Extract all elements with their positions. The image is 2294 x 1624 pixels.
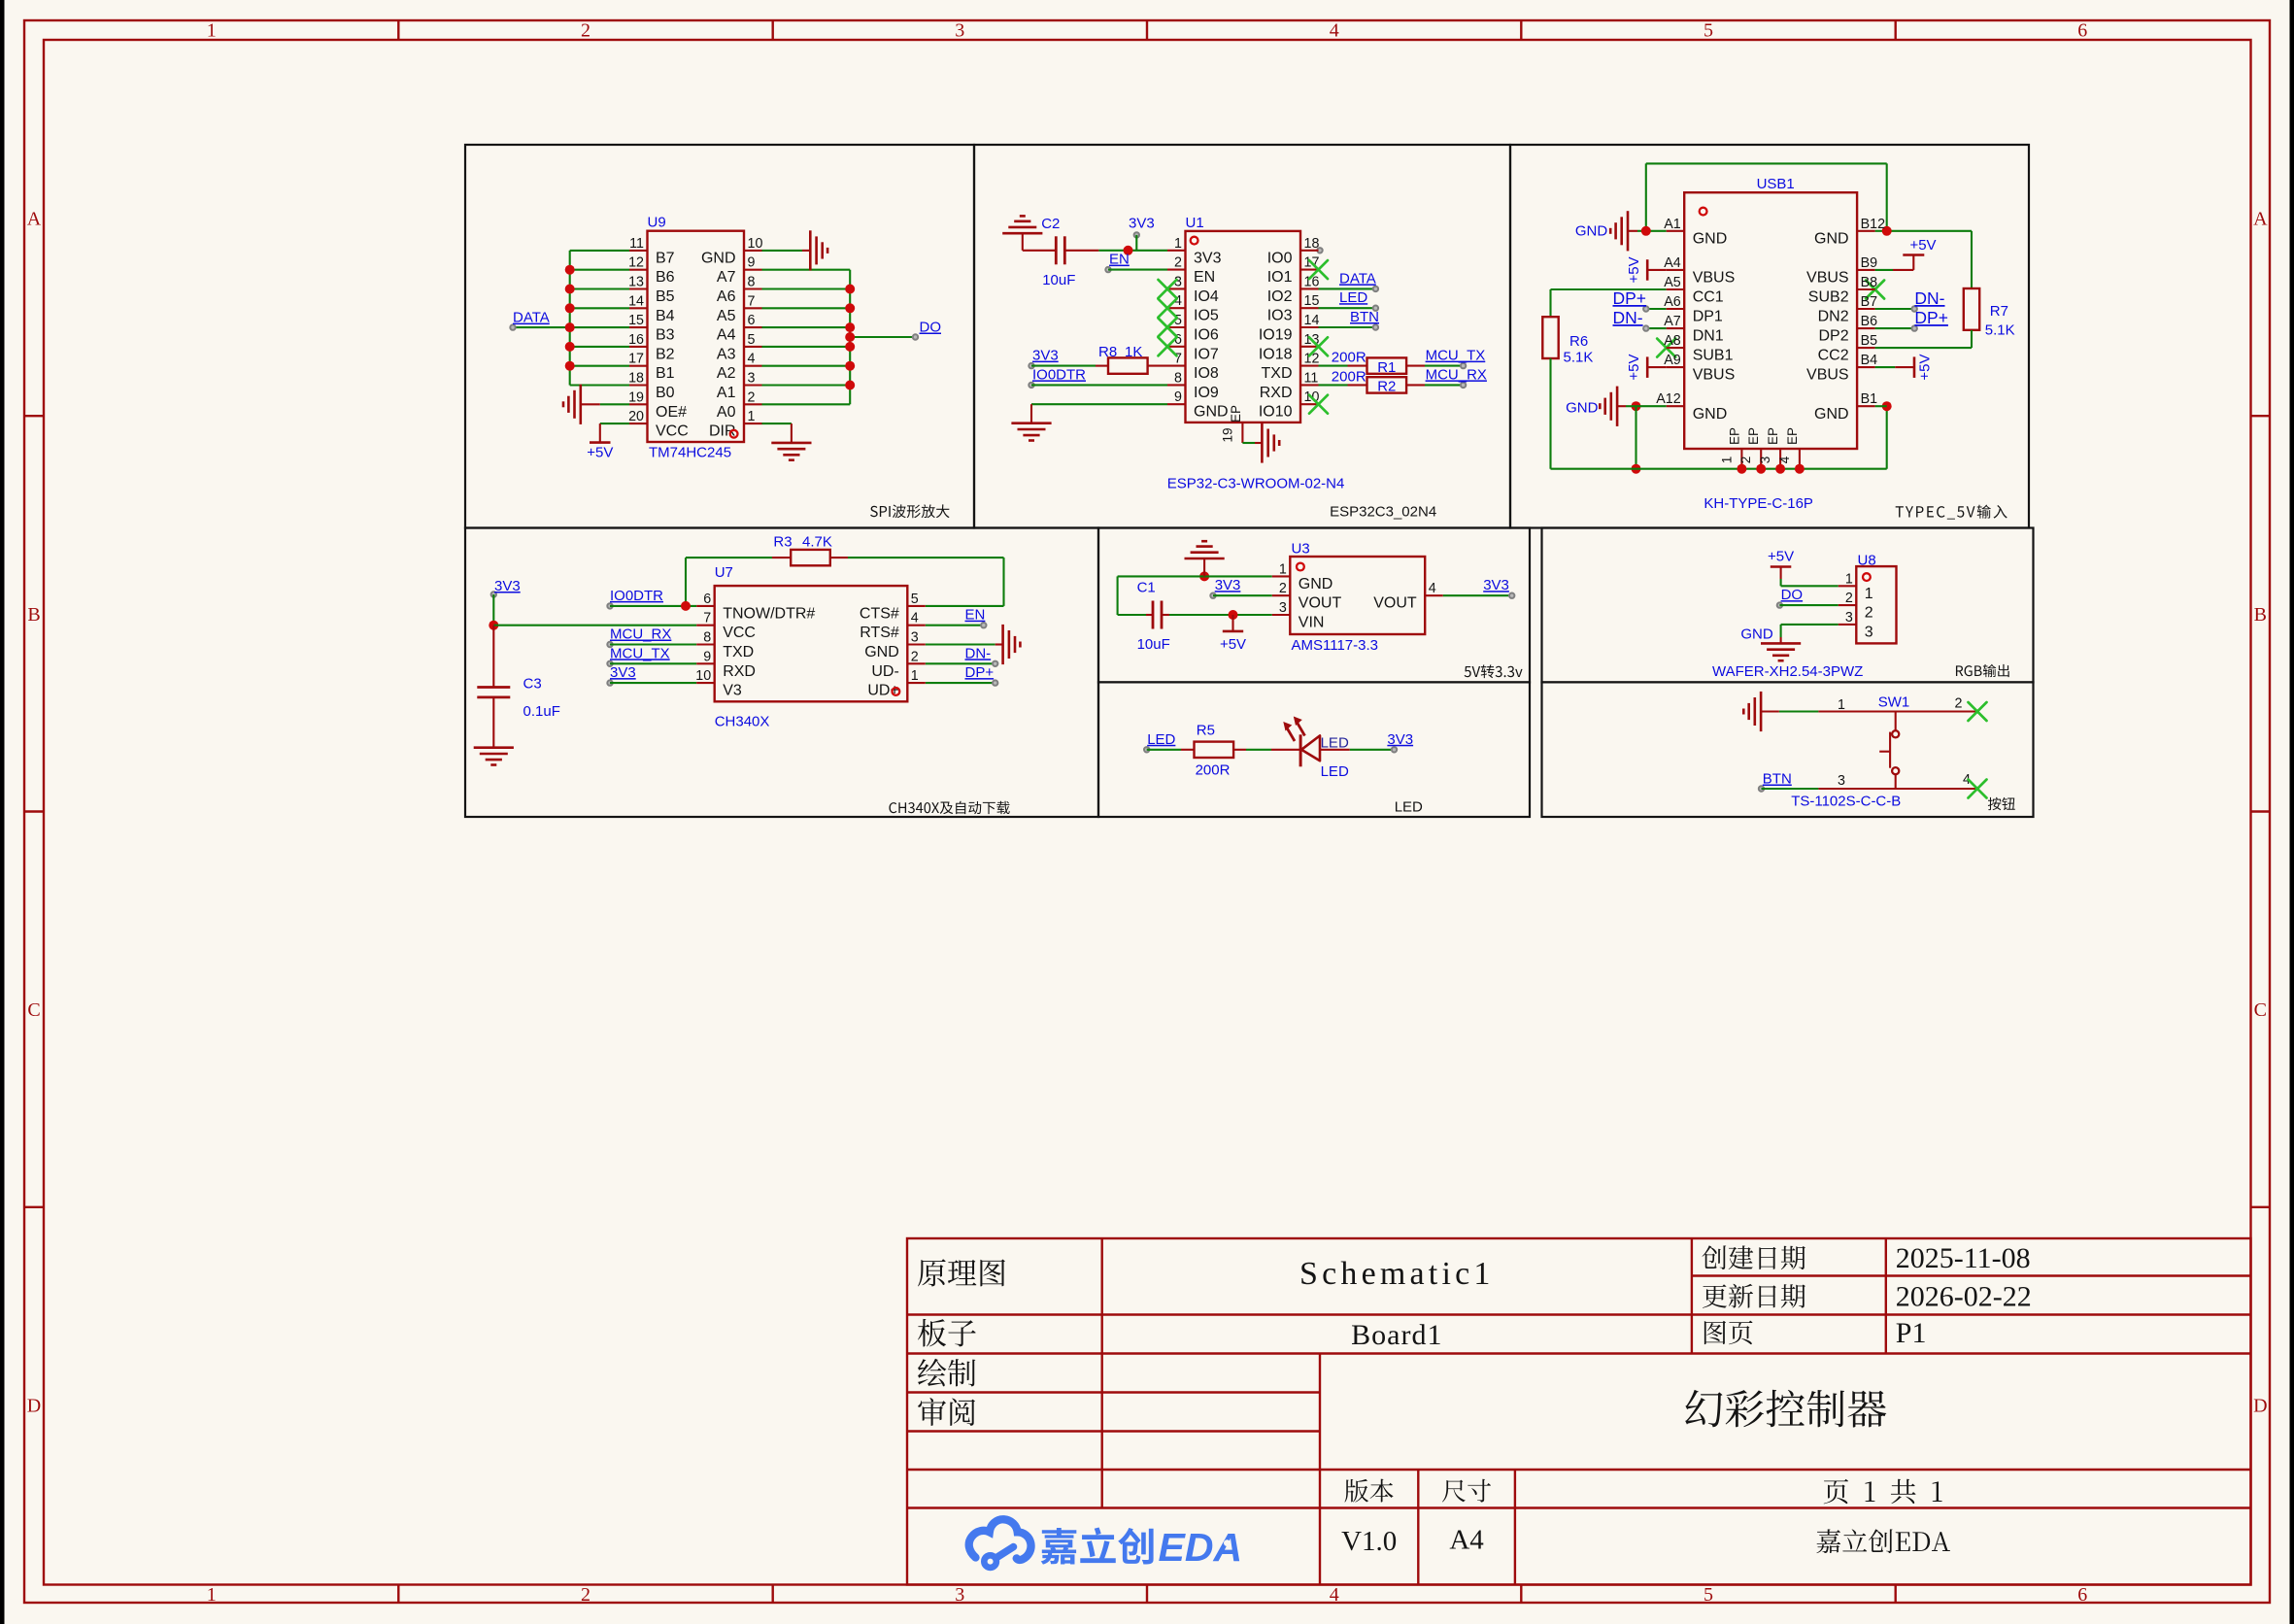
svg-text:9: 9 — [703, 649, 711, 664]
svg-text:19: 19 — [1221, 427, 1235, 442]
svg-text:B5: B5 — [1861, 333, 1878, 349]
svg-text:7: 7 — [703, 611, 711, 626]
svg-text:2: 2 — [1279, 581, 1287, 596]
svg-text:14: 14 — [628, 293, 644, 309]
svg-text:A7: A7 — [1664, 314, 1681, 329]
svg-text:19: 19 — [628, 389, 644, 405]
svg-text:D: D — [27, 1395, 41, 1416]
svg-text:6: 6 — [2077, 20, 2087, 42]
svg-text:DO: DO — [920, 320, 942, 336]
svg-text:ESP32C3_02N4: ESP32C3_02N4 — [1330, 504, 1436, 521]
svg-text:8: 8 — [1174, 370, 1182, 386]
svg-text:+5V: +5V — [1917, 355, 1934, 381]
svg-text:LED: LED — [1395, 799, 1423, 816]
svg-text:3V3: 3V3 — [1215, 577, 1241, 593]
svg-text:VCC: VCC — [656, 423, 689, 440]
svg-text:2: 2 — [1955, 696, 1963, 712]
svg-text:A5: A5 — [1664, 275, 1681, 290]
svg-text:A3: A3 — [717, 346, 736, 362]
svg-text:U3: U3 — [1292, 541, 1310, 558]
svg-text:1: 1 — [1279, 561, 1287, 577]
svg-text:CC1: CC1 — [1693, 289, 1724, 306]
svg-text:2025-11-08: 2025-11-08 — [1896, 1242, 2031, 1274]
svg-text:IO3: IO3 — [1267, 308, 1293, 324]
svg-text:Board1: Board1 — [1351, 1319, 1442, 1351]
svg-text:TNOW/DTR#: TNOW/DTR# — [723, 605, 815, 622]
svg-text:R5: R5 — [1197, 723, 1215, 739]
svg-text:BTN: BTN — [1350, 309, 1379, 325]
svg-text:MCU_RX: MCU_RX — [610, 626, 671, 643]
svg-text:GND: GND — [1814, 230, 1849, 247]
svg-text:LED: LED — [1147, 731, 1175, 748]
svg-text:OE#: OE# — [656, 404, 687, 421]
svg-text:U7: U7 — [715, 564, 733, 581]
svg-text:2: 2 — [1845, 591, 1853, 606]
svg-text:AMS1117-3.3: AMS1117-3.3 — [1292, 637, 1379, 654]
svg-text:IO5: IO5 — [1194, 308, 1219, 324]
svg-text:17: 17 — [628, 352, 644, 367]
svg-text:1: 1 — [1838, 697, 1845, 713]
svg-text:TM74HC245: TM74HC245 — [649, 445, 731, 461]
svg-text:DN2: DN2 — [1818, 309, 1849, 325]
svg-text:A12: A12 — [1656, 391, 1680, 407]
svg-text:DATA: DATA — [513, 310, 550, 326]
svg-text:CTS#: CTS# — [860, 605, 899, 622]
svg-text:GND: GND — [1740, 626, 1773, 643]
svg-text:2: 2 — [581, 1584, 590, 1606]
svg-text:A7: A7 — [717, 269, 736, 286]
svg-text:CH340X: CH340X — [715, 714, 770, 730]
svg-text:TXD: TXD — [723, 644, 754, 660]
svg-text:GND: GND — [701, 250, 736, 266]
svg-text:18: 18 — [1304, 236, 1320, 252]
svg-text:10: 10 — [748, 236, 763, 252]
svg-text:IO1: IO1 — [1267, 269, 1293, 286]
svg-text:U1: U1 — [1186, 215, 1204, 231]
svg-text:Schematic1: Schematic1 — [1299, 1256, 1495, 1292]
svg-text:A6: A6 — [717, 288, 736, 305]
svg-text:200R: 200R — [1332, 350, 1366, 366]
svg-text:MCU_TX: MCU_TX — [1426, 348, 1486, 364]
svg-text:200R: 200R — [1332, 368, 1366, 385]
svg-text:1: 1 — [1174, 236, 1182, 252]
svg-text:3V3: 3V3 — [1032, 348, 1059, 364]
svg-text:R2: R2 — [1377, 379, 1396, 395]
svg-text:4: 4 — [1777, 456, 1792, 463]
svg-text:4: 4 — [911, 611, 919, 626]
svg-text:+5V: +5V — [1220, 636, 1246, 653]
svg-text:A6: A6 — [1664, 294, 1681, 310]
svg-text:DP1: DP1 — [1693, 309, 1723, 325]
svg-text:1: 1 — [1845, 571, 1853, 587]
svg-text:DATA: DATA — [1339, 270, 1376, 287]
svg-text:3: 3 — [748, 371, 756, 387]
svg-text:CC2: CC2 — [1818, 348, 1849, 364]
svg-text:IO8: IO8 — [1194, 365, 1219, 382]
svg-text:A: A — [27, 209, 42, 230]
svg-text:200R: 200R — [1196, 762, 1231, 779]
svg-text:6: 6 — [748, 313, 756, 328]
svg-text:IO7: IO7 — [1194, 346, 1219, 362]
svg-text:IO18: IO18 — [1259, 346, 1293, 362]
svg-text:14: 14 — [1304, 313, 1320, 328]
svg-text:VBUS: VBUS — [1806, 367, 1849, 384]
svg-text:B: B — [27, 604, 40, 626]
svg-text:B8: B8 — [1861, 275, 1878, 290]
svg-text:VCC: VCC — [723, 625, 756, 641]
svg-text:3V3: 3V3 — [1194, 250, 1222, 266]
svg-text:A: A — [2253, 209, 2268, 230]
svg-text:B9: B9 — [1861, 255, 1878, 271]
svg-text:GND: GND — [1299, 576, 1333, 592]
svg-text:1: 1 — [207, 1584, 217, 1606]
svg-text:USB1: USB1 — [1757, 176, 1795, 192]
svg-text:R8: R8 — [1098, 344, 1117, 360]
svg-text:A0: A0 — [717, 404, 736, 421]
svg-text:5.1K: 5.1K — [1564, 350, 1594, 366]
svg-text:2: 2 — [1174, 255, 1182, 271]
svg-text:DN1: DN1 — [1693, 328, 1724, 345]
svg-text:GND: GND — [1194, 404, 1229, 421]
svg-text:11: 11 — [1304, 370, 1319, 386]
svg-text:10uF: 10uF — [1137, 636, 1170, 653]
svg-text:DP2: DP2 — [1818, 328, 1848, 345]
svg-text:A1: A1 — [717, 385, 736, 401]
svg-text:WAFER-XH2.54-3PWZ: WAFER-XH2.54-3PWZ — [1712, 663, 1863, 680]
svg-text:4.7K: 4.7K — [802, 534, 832, 551]
svg-text:EN: EN — [1109, 252, 1130, 268]
svg-text:GND: GND — [1566, 400, 1599, 417]
svg-text:13: 13 — [628, 275, 644, 290]
svg-text:LED: LED — [1321, 763, 1349, 780]
svg-text:3V3: 3V3 — [494, 578, 521, 594]
svg-text:0.1uF: 0.1uF — [523, 703, 560, 720]
svg-text:DP+: DP+ — [1613, 288, 1647, 308]
svg-text:8: 8 — [748, 275, 756, 290]
svg-text:+5V: +5V — [1909, 237, 1936, 254]
svg-text:3: 3 — [911, 630, 919, 646]
svg-text:3V3: 3V3 — [1483, 577, 1509, 593]
svg-text:9: 9 — [748, 255, 756, 271]
svg-text:R7: R7 — [1990, 303, 2008, 320]
svg-text:B6: B6 — [1861, 314, 1878, 329]
svg-text:BTN: BTN — [1763, 771, 1792, 788]
svg-text:SUB1: SUB1 — [1693, 348, 1734, 364]
svg-text:A5: A5 — [717, 308, 736, 324]
svg-text:+5V: +5V — [1626, 256, 1642, 283]
svg-text:IO19: IO19 — [1259, 327, 1293, 344]
svg-text:3: 3 — [1758, 457, 1772, 464]
svg-text:DP+: DP+ — [965, 664, 995, 681]
svg-text:IO6: IO6 — [1194, 327, 1219, 344]
svg-text:1: 1 — [1719, 457, 1734, 464]
svg-text:B5: B5 — [656, 288, 675, 305]
svg-text:A4: A4 — [1449, 1525, 1484, 1556]
svg-text:6: 6 — [703, 592, 711, 607]
svg-text:20: 20 — [628, 409, 644, 424]
svg-text:DN-: DN- — [965, 645, 992, 661]
svg-text:RXD: RXD — [723, 663, 756, 680]
svg-text:C: C — [2254, 999, 2267, 1021]
svg-text:3: 3 — [1279, 600, 1287, 616]
svg-text:LED: LED — [1321, 735, 1349, 752]
svg-text:EDA: EDA — [1159, 1525, 1243, 1570]
svg-text:3: 3 — [955, 1584, 964, 1606]
svg-text:12: 12 — [628, 255, 644, 271]
svg-text:V1.0: V1.0 — [1341, 1526, 1397, 1557]
svg-text:3V3: 3V3 — [1387, 731, 1413, 748]
svg-text:8: 8 — [703, 630, 711, 646]
svg-text:10: 10 — [695, 668, 711, 684]
svg-text:2: 2 — [1865, 605, 1873, 622]
svg-text:6: 6 — [2077, 1584, 2087, 1606]
svg-text:IO10: IO10 — [1259, 404, 1293, 421]
svg-text:B1: B1 — [656, 365, 675, 382]
svg-text:SW1: SW1 — [1878, 694, 1910, 711]
svg-text:B4: B4 — [656, 308, 675, 324]
svg-text:4: 4 — [1330, 20, 1339, 42]
svg-text:18: 18 — [628, 371, 644, 387]
svg-text:5.1K: 5.1K — [1985, 322, 2015, 339]
svg-text:B6: B6 — [656, 269, 675, 286]
svg-text:R1: R1 — [1377, 359, 1396, 376]
svg-text:9: 9 — [1174, 389, 1182, 405]
svg-text:GND: GND — [1575, 223, 1608, 240]
svg-text:3V3: 3V3 — [610, 664, 636, 681]
svg-text:1: 1 — [1865, 586, 1873, 602]
svg-text:UD-: UD- — [871, 663, 898, 680]
svg-text:IO9: IO9 — [1194, 385, 1219, 401]
svg-text:5: 5 — [748, 332, 756, 348]
svg-text:4: 4 — [1330, 1584, 1339, 1606]
svg-text:B4: B4 — [1861, 353, 1878, 368]
svg-text:15: 15 — [1304, 293, 1320, 309]
svg-text:EP: EP — [1766, 427, 1780, 445]
svg-text:DO: DO — [1781, 587, 1804, 603]
svg-text:VOUT: VOUT — [1299, 595, 1342, 612]
svg-text:3: 3 — [1838, 773, 1845, 789]
svg-text:7: 7 — [748, 293, 756, 309]
svg-text:U8: U8 — [1858, 553, 1876, 569]
svg-text:B3: B3 — [656, 327, 675, 344]
svg-text:R6: R6 — [1569, 333, 1588, 350]
svg-text:2: 2 — [748, 389, 756, 405]
svg-text:3: 3 — [1865, 624, 1873, 640]
svg-text:B7: B7 — [1861, 294, 1878, 310]
svg-text:GND: GND — [1814, 406, 1849, 423]
svg-text:B1: B1 — [1861, 391, 1878, 407]
svg-text:C3: C3 — [523, 676, 542, 693]
svg-text:3: 3 — [955, 20, 964, 42]
svg-text:2: 2 — [1738, 457, 1753, 464]
svg-text:VBUS: VBUS — [1693, 269, 1736, 286]
svg-text:U9: U9 — [648, 215, 666, 231]
svg-text:VOUT: VOUT — [1373, 595, 1417, 612]
svg-text:DN-: DN- — [1613, 308, 1643, 327]
svg-text:SUB2: SUB2 — [1808, 289, 1849, 306]
svg-text:ESP32-C3-WROOM-02-N4: ESP32-C3-WROOM-02-N4 — [1167, 475, 1345, 491]
svg-text:B: B — [2254, 604, 2267, 626]
svg-text:16: 16 — [628, 332, 644, 348]
svg-text:A9: A9 — [1664, 353, 1681, 368]
svg-text:TS-1102S-C-C-B: TS-1102S-C-C-B — [1791, 794, 1901, 810]
svg-text:EP: EP — [1229, 405, 1243, 423]
svg-text:11: 11 — [629, 236, 644, 252]
svg-text:4: 4 — [1429, 581, 1436, 596]
svg-text:RXD: RXD — [1260, 385, 1293, 401]
svg-text:IO4: IO4 — [1194, 288, 1219, 305]
svg-text:RTS#: RTS# — [860, 625, 899, 641]
svg-text:VBUS: VBUS — [1693, 367, 1736, 384]
svg-text:+5V: +5V — [1768, 549, 1794, 565]
svg-text:EP: EP — [1727, 427, 1741, 445]
svg-text:3: 3 — [1845, 610, 1853, 626]
svg-text:C: C — [27, 999, 40, 1021]
svg-text:5: 5 — [1704, 20, 1713, 42]
svg-text:R3: R3 — [773, 534, 792, 551]
svg-text:GND: GND — [1693, 230, 1728, 247]
svg-text:5: 5 — [911, 592, 919, 607]
svg-text:2026-02-22: 2026-02-22 — [1896, 1281, 2032, 1313]
svg-text:D: D — [2253, 1395, 2267, 1416]
svg-text:KH-TYPE-C-16P: KH-TYPE-C-16P — [1704, 495, 1813, 512]
svg-text:4: 4 — [748, 352, 756, 367]
svg-text:EP: EP — [1746, 427, 1761, 445]
svg-text:C1: C1 — [1137, 580, 1156, 596]
svg-text:2: 2 — [911, 649, 919, 664]
svg-text:1: 1 — [748, 409, 756, 424]
svg-text:B0: B0 — [656, 385, 675, 401]
svg-text:1K: 1K — [1125, 344, 1142, 360]
svg-text:B7: B7 — [656, 250, 675, 266]
svg-text:VBUS: VBUS — [1806, 269, 1849, 286]
svg-text:15: 15 — [628, 313, 644, 328]
svg-text:5: 5 — [1704, 1584, 1713, 1606]
svg-text:TXD: TXD — [1262, 365, 1293, 382]
svg-text:GND: GND — [1693, 406, 1728, 423]
svg-text:IO2: IO2 — [1267, 288, 1293, 305]
svg-text:B2: B2 — [656, 346, 675, 362]
svg-text:1: 1 — [911, 668, 919, 684]
svg-text:MCU_RX: MCU_RX — [1426, 366, 1487, 383]
svg-text:1: 1 — [207, 20, 217, 42]
svg-text:A4: A4 — [1664, 255, 1681, 271]
svg-text:P1: P1 — [1896, 1317, 1927, 1349]
svg-text:IO0DTR: IO0DTR — [1032, 366, 1086, 383]
svg-text:DN-: DN- — [1914, 288, 1944, 308]
svg-text:10uF: 10uF — [1042, 272, 1075, 288]
svg-text:A8: A8 — [1664, 333, 1681, 349]
svg-text:+5V: +5V — [587, 445, 613, 461]
svg-text:UD+: UD+ — [867, 683, 898, 699]
svg-text:EN: EN — [1194, 269, 1215, 286]
svg-text:VIN: VIN — [1299, 615, 1325, 631]
svg-text:+5V: +5V — [1626, 355, 1642, 381]
svg-text:3V3: 3V3 — [1129, 216, 1155, 232]
svg-text:DP+: DP+ — [1914, 308, 1948, 327]
svg-text:GND: GND — [864, 644, 899, 660]
svg-text:IO0: IO0 — [1267, 250, 1293, 266]
svg-text:V3: V3 — [723, 683, 742, 699]
svg-text:A2: A2 — [717, 365, 736, 382]
svg-text:MCU_TX: MCU_TX — [610, 645, 670, 661]
svg-text:LED: LED — [1339, 289, 1367, 306]
svg-text:EN: EN — [965, 607, 986, 624]
svg-text:2: 2 — [581, 20, 590, 42]
svg-text:A1: A1 — [1664, 217, 1681, 232]
svg-text:EP: EP — [1785, 427, 1800, 445]
svg-text:B12: B12 — [1861, 217, 1885, 232]
svg-text:IO0DTR: IO0DTR — [610, 588, 663, 604]
svg-text:C2: C2 — [1041, 216, 1060, 232]
svg-text:A4: A4 — [717, 327, 736, 344]
